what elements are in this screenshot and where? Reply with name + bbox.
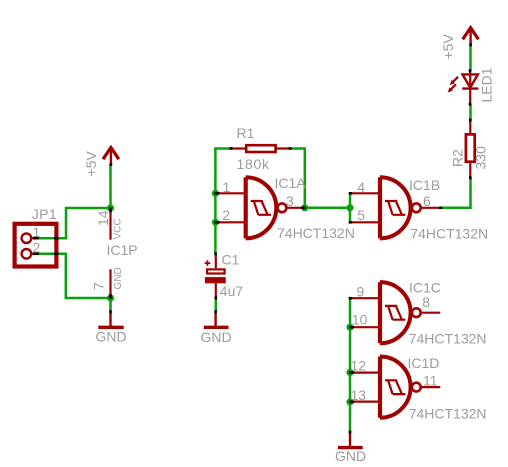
gate IC1C (NAND 74HCT132N): [350, 282, 441, 343]
junction dot at IC1A pin2: [212, 219, 219, 226]
overlap mark: pin14 in junction dot: [109, 208, 112, 213]
+5V supply symbol (left): [103, 148, 119, 165]
svg-text:GND: GND: [96, 329, 127, 345]
svg-text:GND: GND: [201, 329, 232, 345]
overlap mark: IC1D pin12 in junction dot: [349, 371, 354, 374]
overlap mark: IC1C pin10 in junction dot: [349, 326, 354, 329]
overlap mark: JP1 pin2 stub: [33, 253, 39, 256]
svg-text:14: 14: [95, 210, 111, 226]
wire net N$1: JP1 pin1 to IC1P VCC junction: [33, 208, 111, 238]
svg-text:IC1P: IC1P: [107, 242, 138, 258]
overlap mark: JP1 pin1 stub: [33, 237, 39, 240]
overlap mark: +5V left stem to wire: [110, 163, 113, 166]
overlap mark: +5V right stem to wire: [469, 43, 472, 46]
wire net: IC1A output to IC1B inputs: [305, 193, 350, 222]
overlap mark: R1 left lead to wire: [230, 147, 233, 150]
svg-text:IC1D: IC1D: [408, 355, 440, 371]
svg-text:7: 7: [91, 282, 107, 290]
svg-text:VCC: VCC: [113, 218, 124, 239]
overlap mark: IC1B pin4 corner: [349, 192, 352, 195]
svg-text:5: 5: [357, 207, 365, 223]
wire net: LED1 anode to +5V symbol: [469, 45, 472, 71]
svg-text:GND: GND: [113, 267, 124, 289]
wire net GND: junction down to GND symbol (left): [109, 298, 112, 312]
overlap mark: IC1B pin6 to wire: [439, 207, 442, 210]
junction dot at IC1P pin7: [107, 294, 114, 301]
svg-text:R1: R1: [237, 125, 255, 141]
overlap mark: IC1C pin9 corner: [349, 297, 352, 300]
+5V supply symbol (right): [463, 28, 479, 45]
wire net: IC1C and IC1D inputs down to GND: [349, 298, 352, 432]
overlap mark: IC1B pin5 corner: [349, 221, 352, 224]
wire net GND: JP1 pin2 to IC1P GND junction: [33, 254, 111, 298]
ground symbol GND (left, IC1P): [98, 313, 123, 328]
svg-text:74HCT132N: 74HCT132N: [409, 331, 487, 347]
junction dot at IC1P pin14: [107, 204, 114, 211]
resistor R1: [231, 145, 291, 152]
junction dot at IC1A output node: [301, 204, 308, 211]
svg-text:LED1: LED1: [479, 67, 495, 102]
gate IC1D (NAND 74HCT132N): [350, 357, 441, 418]
overlap mark: C1 bottom lead to wire: [215, 296, 218, 299]
wire net: C1 bottom to GND symbol: [215, 298, 218, 313]
svg-text:180k: 180k: [237, 156, 270, 172]
ground symbol GND (below C1): [204, 313, 229, 328]
LED LED1: [448, 70, 479, 104]
power part IC1P pin 14 (VCC): [109, 208, 111, 240]
overlap mark: C1 top lead to wire: [214, 252, 217, 255]
overlap mark: R1 right lead to wire: [289, 147, 292, 150]
capacitor C1 (polarized): [205, 254, 226, 298]
gate IC1B (NAND 74HCT132N): [350, 177, 441, 238]
svg-text:4: 4: [357, 179, 365, 195]
junction dot at IC1D pin12: [346, 369, 353, 376]
overlap mark: wire2 crossing JP1 box edge: [54, 253, 58, 256]
junction dot at IC1A pin1: [212, 190, 219, 197]
svg-text:330: 330: [473, 146, 489, 170]
svg-text:74HCT132N: 74HCT132N: [409, 405, 487, 421]
svg-text:+5V: +5V: [83, 151, 99, 177]
svg-text:+5V: +5V: [440, 34, 456, 60]
svg-text:11: 11: [423, 373, 438, 389]
svg-text:IC1A: IC1A: [275, 175, 307, 191]
svg-text:GND: GND: [335, 448, 366, 464]
op-amp gate IC1A (NAND 74HCT132N): [215, 177, 306, 238]
overlap mark: pin7 in junction dot: [109, 294, 112, 299]
overlap mark: IC1A pin3 in junction dot: [301, 207, 305, 210]
svg-text:4u7: 4u7: [220, 283, 244, 299]
wire +5V net: junction up to +5V symbol: [109, 164, 112, 208]
svg-text:9: 9: [357, 284, 365, 300]
svg-text:IC1B: IC1B: [409, 177, 440, 193]
svg-text:74HCT132N: 74HCT132N: [410, 225, 488, 241]
junction dot at IC1D pin13: [346, 398, 353, 405]
wire net: R2 top to LED1 cathode: [469, 104, 472, 121]
svg-text:1: 1: [223, 179, 231, 195]
svg-text:C1: C1: [222, 252, 240, 268]
svg-text:74HCT132N: 74HCT132N: [277, 225, 355, 241]
junction dot at IC1C pin10: [346, 324, 353, 331]
connector JP1: [15, 224, 57, 267]
svg-text:8: 8: [422, 294, 430, 310]
overlap mark: IC1A pin1 in junction dot: [215, 192, 220, 195]
svg-text:IC1C: IC1C: [409, 280, 441, 296]
overlap mark: wire to GND pin (left): [109, 310, 112, 313]
overlap mark: R2 bottom lead to wire: [469, 176, 472, 179]
resistor R2: [466, 120, 475, 178]
svg-text:6: 6: [423, 193, 431, 209]
svg-text:JP1: JP1: [32, 206, 57, 222]
overlap mark: wire1 crossing JP1 box edge: [54, 237, 58, 240]
overlap mark: LED cathode lead to wire: [469, 103, 472, 106]
overlap mark: IC1D pin13 in junction dot: [349, 401, 354, 404]
overlap mark: LED anode lead to wire: [469, 69, 472, 72]
wire net: R1 left lead down past IC1A inputs to C1: [215, 149, 230, 254]
wire net: R1 right lead down to IC1A output junction: [290, 149, 305, 208]
overlap mark: wire to GND pin (bottom right): [349, 431, 352, 434]
svg-text:2: 2: [222, 207, 230, 223]
wire net: IC1B output to R2 bottom: [441, 178, 471, 208]
svg-text:R2: R2: [450, 149, 466, 167]
power part IC1P pin 7 (GND): [109, 269, 111, 298]
overlap mark: wire to GND pin below C1: [214, 310, 217, 313]
svg-text:3: 3: [286, 193, 294, 209]
ground symbol GND (bottom right): [338, 433, 363, 448]
overlap mark: IC1A pin2 in junction dot: [215, 221, 220, 224]
svg-text:10: 10: [352, 312, 368, 328]
overlap mark: R2 top lead to wire: [469, 119, 472, 122]
junction dot at IC1B input node: [346, 204, 353, 211]
